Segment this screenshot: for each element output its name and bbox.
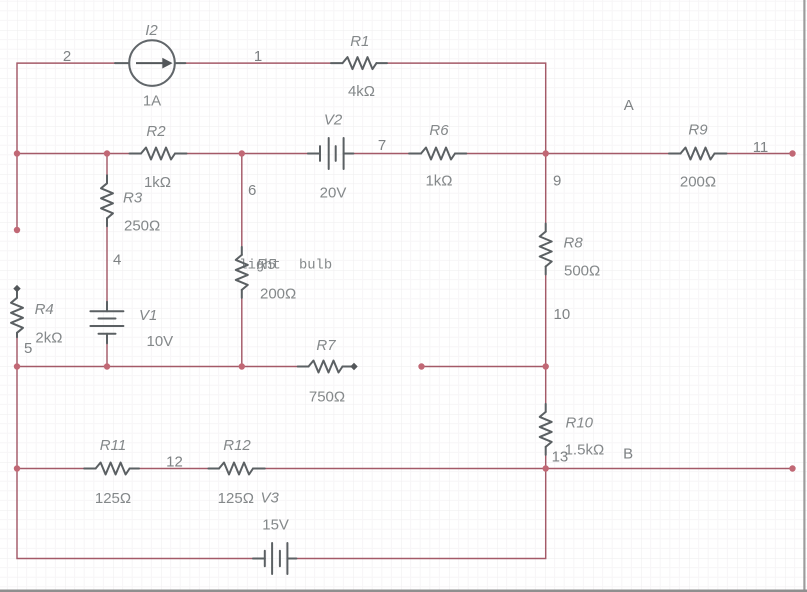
- svg-text:R7: R7: [316, 337, 336, 354]
- svg-text:125Ω: 125Ω: [218, 490, 254, 507]
- svg-text:125Ω: 125Ω: [95, 490, 131, 507]
- svg-text:15V: 15V: [262, 517, 289, 534]
- wire col2 V1 to row3: [106, 343, 108, 366]
- wire row2 R6 through bus to R9 (node 9): [466, 153, 669, 155]
- resistor R9: [669, 148, 727, 160]
- light bulb R5: [236, 247, 248, 298]
- endpoint dot row3 right segment: [418, 363, 424, 369]
- wire col3 bulb to row3: [241, 298, 243, 367]
- junction dot row4 bus (node 13): [543, 465, 549, 471]
- resistor R11: [84, 463, 139, 475]
- svg-text:R10: R10: [566, 414, 594, 431]
- svg-text:1.5kΩ: 1.5kΩ: [565, 441, 605, 458]
- svg-text:7: 7: [378, 137, 386, 154]
- wire left R4 down through row3 to bottom corner: [17, 337, 253, 558]
- wire I2 to R1 (node 1 net): [185, 62, 331, 64]
- current source I2: [115, 40, 185, 86]
- resistor R4: [11, 291, 23, 337]
- svg-text:B: B: [623, 445, 633, 462]
- resistor R7: [298, 361, 351, 373]
- svg-text:2: 2: [63, 48, 71, 65]
- wire col3 row2 to bulb (node 6): [241, 154, 243, 247]
- svg-text:20V: 20V: [320, 184, 347, 201]
- svg-text:9: 9: [553, 172, 561, 189]
- svg-text:R3: R3: [123, 189, 143, 206]
- svg-text:R6: R6: [429, 122, 449, 139]
- endpoint dot left stub: [14, 227, 20, 233]
- wire row4 B net left segment: [17, 468, 84, 470]
- wire row3 left segment to R7: [17, 366, 298, 368]
- battery V3: [253, 543, 296, 574]
- svg-text:R1: R1: [350, 33, 369, 50]
- junction dot row3 bus: [543, 363, 549, 369]
- svg-text:R8: R8: [564, 234, 584, 251]
- wire row3 right segment (node 8): [422, 366, 546, 368]
- svg-text:1A: 1A: [143, 92, 161, 109]
- wire top-left L (node 2 net): [17, 63, 116, 230]
- wire right bus R8 to R10: [545, 275, 547, 404]
- junction dot row3 col2: [104, 363, 110, 369]
- svg-text:12: 12: [166, 454, 183, 471]
- wire row2 V2 to R6 (node 7): [353, 153, 409, 155]
- svg-text:R11: R11: [100, 437, 126, 454]
- battery V1: [90, 302, 123, 344]
- resistor R1: [331, 57, 387, 69]
- svg-text:R4: R4: [35, 301, 54, 318]
- wire row2 R2 to V2: [187, 153, 309, 155]
- svg-text:1: 1: [254, 48, 262, 65]
- junction dot row3 col3: [239, 363, 245, 369]
- svg-text:4: 4: [113, 252, 121, 269]
- svg-text:11: 11: [753, 139, 769, 156]
- svg-text:5: 5: [24, 340, 32, 357]
- wire row2 left segment: [17, 153, 129, 155]
- svg-text:2kΩ: 2kΩ: [35, 329, 62, 346]
- wire col2 R3 to V1 (node 4): [106, 226, 108, 301]
- svg-text:13: 13: [552, 448, 569, 465]
- svg-text:V1: V1: [139, 307, 157, 324]
- battery V2: [308, 138, 354, 169]
- junction dot row4 left: [14, 465, 20, 471]
- svg-text:200Ω: 200Ω: [680, 173, 716, 190]
- svg-text:R9: R9: [688, 122, 708, 139]
- svg-text:10V: 10V: [147, 333, 174, 350]
- wire col2 row2 to R3: [106, 154, 108, 176]
- svg-text:1kΩ: 1kΩ: [144, 174, 171, 191]
- svg-text:I2: I2: [145, 22, 158, 39]
- terminal diamond R7 right: [350, 363, 357, 370]
- svg-text:V3: V3: [261, 489, 280, 506]
- svg-text:200Ω: 200Ω: [260, 286, 296, 303]
- junction dot row2 col2: [104, 150, 110, 156]
- svg-text:R2: R2: [146, 123, 166, 140]
- resistor R10: [540, 404, 552, 455]
- svg-text:10: 10: [554, 306, 571, 323]
- wire row4 R11 to R12 (node 12): [139, 468, 208, 470]
- wire R1 to right bus top corner: [387, 63, 546, 223]
- junction dot row3 left: [14, 363, 20, 369]
- svg-text:4kΩ: 4kΩ: [348, 83, 375, 100]
- wire right bus R10 down to bottom corner: [296, 455, 545, 559]
- svg-text:A: A: [624, 97, 634, 114]
- endpoint dot node 11: [789, 150, 795, 156]
- svg-text:bulb: bulb: [299, 258, 332, 274]
- endpoint dot node B: [789, 465, 795, 471]
- terminal diamond R4 top: [13, 285, 20, 292]
- resistor R12: [208, 463, 264, 475]
- resistor R6: [409, 148, 466, 160]
- wire row2 R9 to node 11 end: [727, 153, 793, 155]
- resistor R2: [130, 148, 187, 160]
- svg-text:750Ω: 750Ω: [309, 389, 345, 406]
- svg-text:250Ω: 250Ω: [124, 217, 160, 234]
- junction dot row2 bus: [543, 150, 549, 156]
- resistor R3: [101, 175, 113, 226]
- resistor R8: [540, 224, 552, 275]
- svg-text:500Ω: 500Ω: [564, 262, 600, 279]
- svg-text:R12: R12: [223, 437, 251, 454]
- svg-text:V2: V2: [324, 111, 343, 128]
- junction dot row2 left: [14, 150, 20, 156]
- svg-text:1kΩ: 1kΩ: [425, 172, 452, 189]
- svg-text:6: 6: [248, 182, 256, 199]
- junction dot row2 col3: [239, 150, 245, 156]
- svg-text:R5: R5: [257, 256, 277, 273]
- wire row4 R12 through bus to node B end: [265, 468, 793, 470]
